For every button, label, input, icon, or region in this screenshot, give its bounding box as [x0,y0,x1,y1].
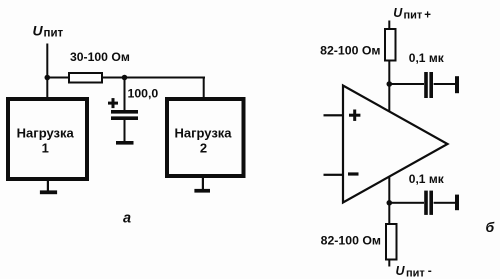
wire: Uпит down to load 1 [46,44,48,98]
svg-text:82-100 Ом: 82-100 Ом [321,234,381,248]
svg-text:Нагрузка: Нагрузка [174,126,232,141]
svg-text:U: U [396,264,406,278]
junction dot C [387,81,393,87]
wire: capacitor C1 to ground [124,120,126,142]
resistor R3 82-100 Ом (bottom) [321,224,397,260]
svg-text:пит: пит [406,267,425,279]
svg-text:1: 1 [42,141,49,156]
wire: resistor R2 to node C [388,61,390,84]
wire: node B down to capacitor C1 [124,78,126,111]
junction dot D [387,200,393,206]
resistor R2 82-100 Ом (top) [320,29,395,61]
wire: node C to capacitor C2 [389,83,424,85]
capacitor C1 100,0 (polarized) [108,87,158,121]
svg-text:а: а [123,211,131,227]
svg-text:-: - [428,264,432,278]
wire: load 1 to ground [47,180,49,191]
wire: load 2 to ground [202,177,204,189]
load box Нагрузка 2 [167,99,244,176]
svg-text:Нагрузка: Нагрузка [17,126,75,141]
node Uпит- label [396,264,432,279]
svg-text:б: б [486,219,495,235]
wire: node D to resistor R3 [388,203,390,224]
op-amp U1 [343,86,448,203]
wire: op-amp V- pin to node D [388,176,390,204]
wire: capacitor C3 to ground terminal [434,202,456,204]
svg-text:0,1 мк: 0,1 мк [409,172,445,186]
ground (load 2) [194,189,210,193]
node Uпит label (circuit a) [33,23,64,40]
svg-text:пит: пит [44,28,64,40]
ground (terminal bar, top) [455,76,459,93]
junction dot B [122,75,128,81]
wire: Uпит+ to resistor R2 [388,21,390,30]
wire: inverting input stub [324,174,344,176]
load box Нагрузка 1 [8,99,87,179]
node Uпит+ label (circuit b) [393,6,431,21]
wire: down to load 2 [203,77,205,99]
wire: capacitor C2 to ground terminal [434,83,456,85]
wire: resistor R3 to Uпит- [388,260,390,267]
ground (capacitor C1) [116,141,134,145]
svg-text:30-100 Ом: 30-100 Ом [70,50,130,64]
svg-text:U: U [33,23,44,39]
svg-text:U: U [393,6,403,20]
capacitor C2 0,1 мк (top) [409,51,445,98]
svg-text:0,1 мк: 0,1 мк [409,51,445,65]
ground (terminal bar, bottom) [455,195,459,211]
wire: node D to capacitor C3 [389,202,424,204]
svg-text:82-100 Ом: 82-100 Ом [320,44,380,58]
svg-text:100,0: 100,0 [128,87,159,101]
wire: node A to resistor R1 [47,77,69,79]
svg-text:2: 2 [200,141,207,156]
capacitor C3 0,1 мк (bottom) [409,172,445,215]
junction dot A [45,75,51,81]
wire: node C to op-amp V+ pin [388,84,390,113]
wire: non-inverting input stub [324,114,344,116]
resistor R1 30-100 Ом [69,50,130,83]
svg-text:+: + [424,9,431,21]
svg-text:пит: пит [404,10,423,22]
wire: resistor to load 2 branch [103,77,205,79]
ground (load 1) [40,190,57,194]
